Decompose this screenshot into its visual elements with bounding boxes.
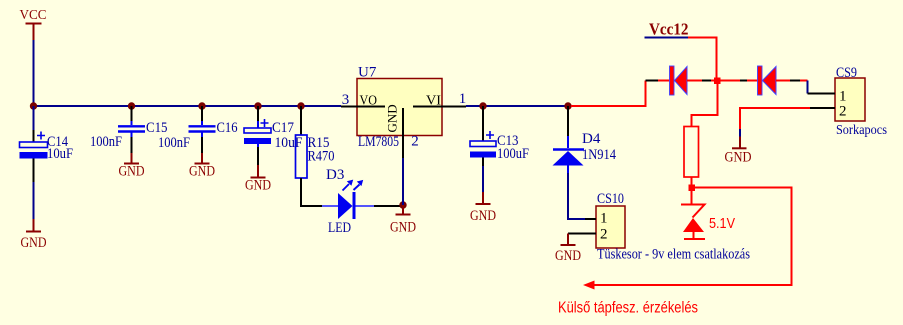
pin 2 xyxy=(402,108,404,158)
wire sense line with arrow xyxy=(583,188,792,290)
pin 3 xyxy=(341,106,385,108)
svg-text:D3: D3 xyxy=(326,167,344,183)
svg-text:100uF: 100uF xyxy=(497,146,529,162)
wire right diode to CS9 pin1 xyxy=(776,81,808,94)
wire U7 pin2 to junction xyxy=(402,158,404,205)
svg-text:U7: U7 xyxy=(358,65,377,81)
wire D4 to CS10 pin1 xyxy=(568,173,585,219)
svg-text:GND: GND xyxy=(470,208,496,224)
svg-text:Vcc12: Vcc12 xyxy=(649,20,689,39)
regulator U7 LM7805 xyxy=(341,65,466,159)
wire CS9 pin2 to ground xyxy=(739,107,810,137)
node junction C16 xyxy=(198,102,205,109)
svg-text:C17: C17 xyxy=(272,120,294,136)
diode D (left red) xyxy=(670,66,688,95)
wire R15 to LED xyxy=(300,205,329,207)
svg-text:5.1V: 5.1V xyxy=(709,215,735,232)
svg-text:2: 2 xyxy=(839,104,847,120)
svg-text:1: 1 xyxy=(839,89,847,105)
diode D (right red) xyxy=(758,66,777,95)
svg-text:C16: C16 xyxy=(217,120,238,136)
ground GND (C17) xyxy=(245,165,271,194)
svg-text:GND: GND xyxy=(555,248,581,264)
diode D4 1N914 xyxy=(553,106,617,173)
svg-text:100nF: 100nF xyxy=(158,135,190,151)
svg-text:1: 1 xyxy=(459,91,467,107)
pin 1 xyxy=(413,106,466,108)
ground GND (C15) xyxy=(119,153,145,180)
svg-text:GND: GND xyxy=(385,104,400,132)
svg-text:2: 2 xyxy=(600,227,608,243)
ground GND (U7/LED) xyxy=(390,205,416,236)
svg-text:10uF: 10uF xyxy=(275,135,303,151)
node junction C13 xyxy=(479,102,486,109)
ground GND (CS9) xyxy=(725,137,752,166)
zener diode 5.1V xyxy=(681,191,735,239)
ground GND (C16) xyxy=(189,153,215,180)
LED D3 xyxy=(322,167,374,236)
resistor R15 xyxy=(296,106,335,206)
svg-text:1N914: 1N914 xyxy=(582,147,616,163)
capacitor C14 xyxy=(20,106,74,182)
wire VCC to bus xyxy=(33,40,35,106)
capacitor C13 xyxy=(470,106,529,166)
capacitor C16 xyxy=(158,106,238,153)
node junction C15 xyxy=(128,102,135,109)
svg-text:C15: C15 xyxy=(146,120,168,136)
node junction D4 xyxy=(564,102,571,109)
node junction C17 xyxy=(254,102,261,109)
wire +5V to Vcc12 diodes (red) xyxy=(571,81,646,107)
capacitor C15 xyxy=(90,106,168,153)
connector CS10 xyxy=(568,191,750,263)
node junction VCC/C14 xyxy=(30,102,37,109)
ground GND (CS10) xyxy=(555,234,581,265)
pin 2 xyxy=(810,107,835,109)
svg-text:GND: GND xyxy=(21,235,47,251)
svg-text:1: 1 xyxy=(600,211,608,227)
svg-text:Sorkapocs: Sorkapocs xyxy=(836,122,887,137)
node junction zener xyxy=(689,185,696,192)
svg-text:GND: GND xyxy=(390,220,416,236)
wire left diode to junction xyxy=(687,80,714,82)
wire U7 pin1 to D4 junction xyxy=(466,105,570,107)
ground GND (C14) xyxy=(21,219,47,251)
svg-text:LM7805: LM7805 xyxy=(358,134,399,150)
wire LED to GND junction xyxy=(374,205,403,207)
svg-text:10uF: 10uF xyxy=(47,146,73,162)
svg-text:GND: GND xyxy=(725,150,752,166)
svg-text:D4: D4 xyxy=(582,131,601,147)
wire main +5V bus xyxy=(34,105,342,107)
wire C14 to ground xyxy=(33,182,35,219)
svg-text:Külső tápfesz. érzékelés: Külső tápfesz. érzékelés xyxy=(558,300,698,317)
wire red diode row left segment xyxy=(646,80,671,82)
ground GND (C13) xyxy=(470,192,496,224)
pin 1 xyxy=(585,218,596,220)
node junction Vcc12 xyxy=(714,78,721,85)
power net label Vcc12 xyxy=(645,20,717,78)
svg-text:GND: GND xyxy=(245,178,271,194)
power port VCC xyxy=(20,7,47,40)
wire junction to right diode xyxy=(721,80,759,82)
svg-text:2: 2 xyxy=(411,134,419,150)
svg-text:100nF: 100nF xyxy=(90,134,122,150)
pin 1 xyxy=(808,93,836,95)
svg-text:Tüskesor - 9v elem csatlakozás: Tüskesor - 9v elem csatlakozás xyxy=(597,247,750,263)
connector CS9 xyxy=(808,65,888,137)
svg-text:LED: LED xyxy=(328,220,351,236)
node junction LED/U7 gnd xyxy=(399,201,406,208)
svg-text:R470: R470 xyxy=(308,149,335,165)
svg-text:GND: GND xyxy=(119,164,145,180)
wire C13 to ground xyxy=(482,166,484,192)
pin 2 xyxy=(568,233,596,235)
svg-text:GND: GND xyxy=(189,164,215,180)
wire Vcc12 junction to resistor xyxy=(692,84,718,127)
resistor (5.1V divider, red) xyxy=(684,127,699,186)
svg-text:CS10: CS10 xyxy=(597,191,624,207)
capacitor C17 xyxy=(244,106,303,165)
node junction R15 xyxy=(297,102,304,109)
svg-text:VCC: VCC xyxy=(20,7,47,22)
